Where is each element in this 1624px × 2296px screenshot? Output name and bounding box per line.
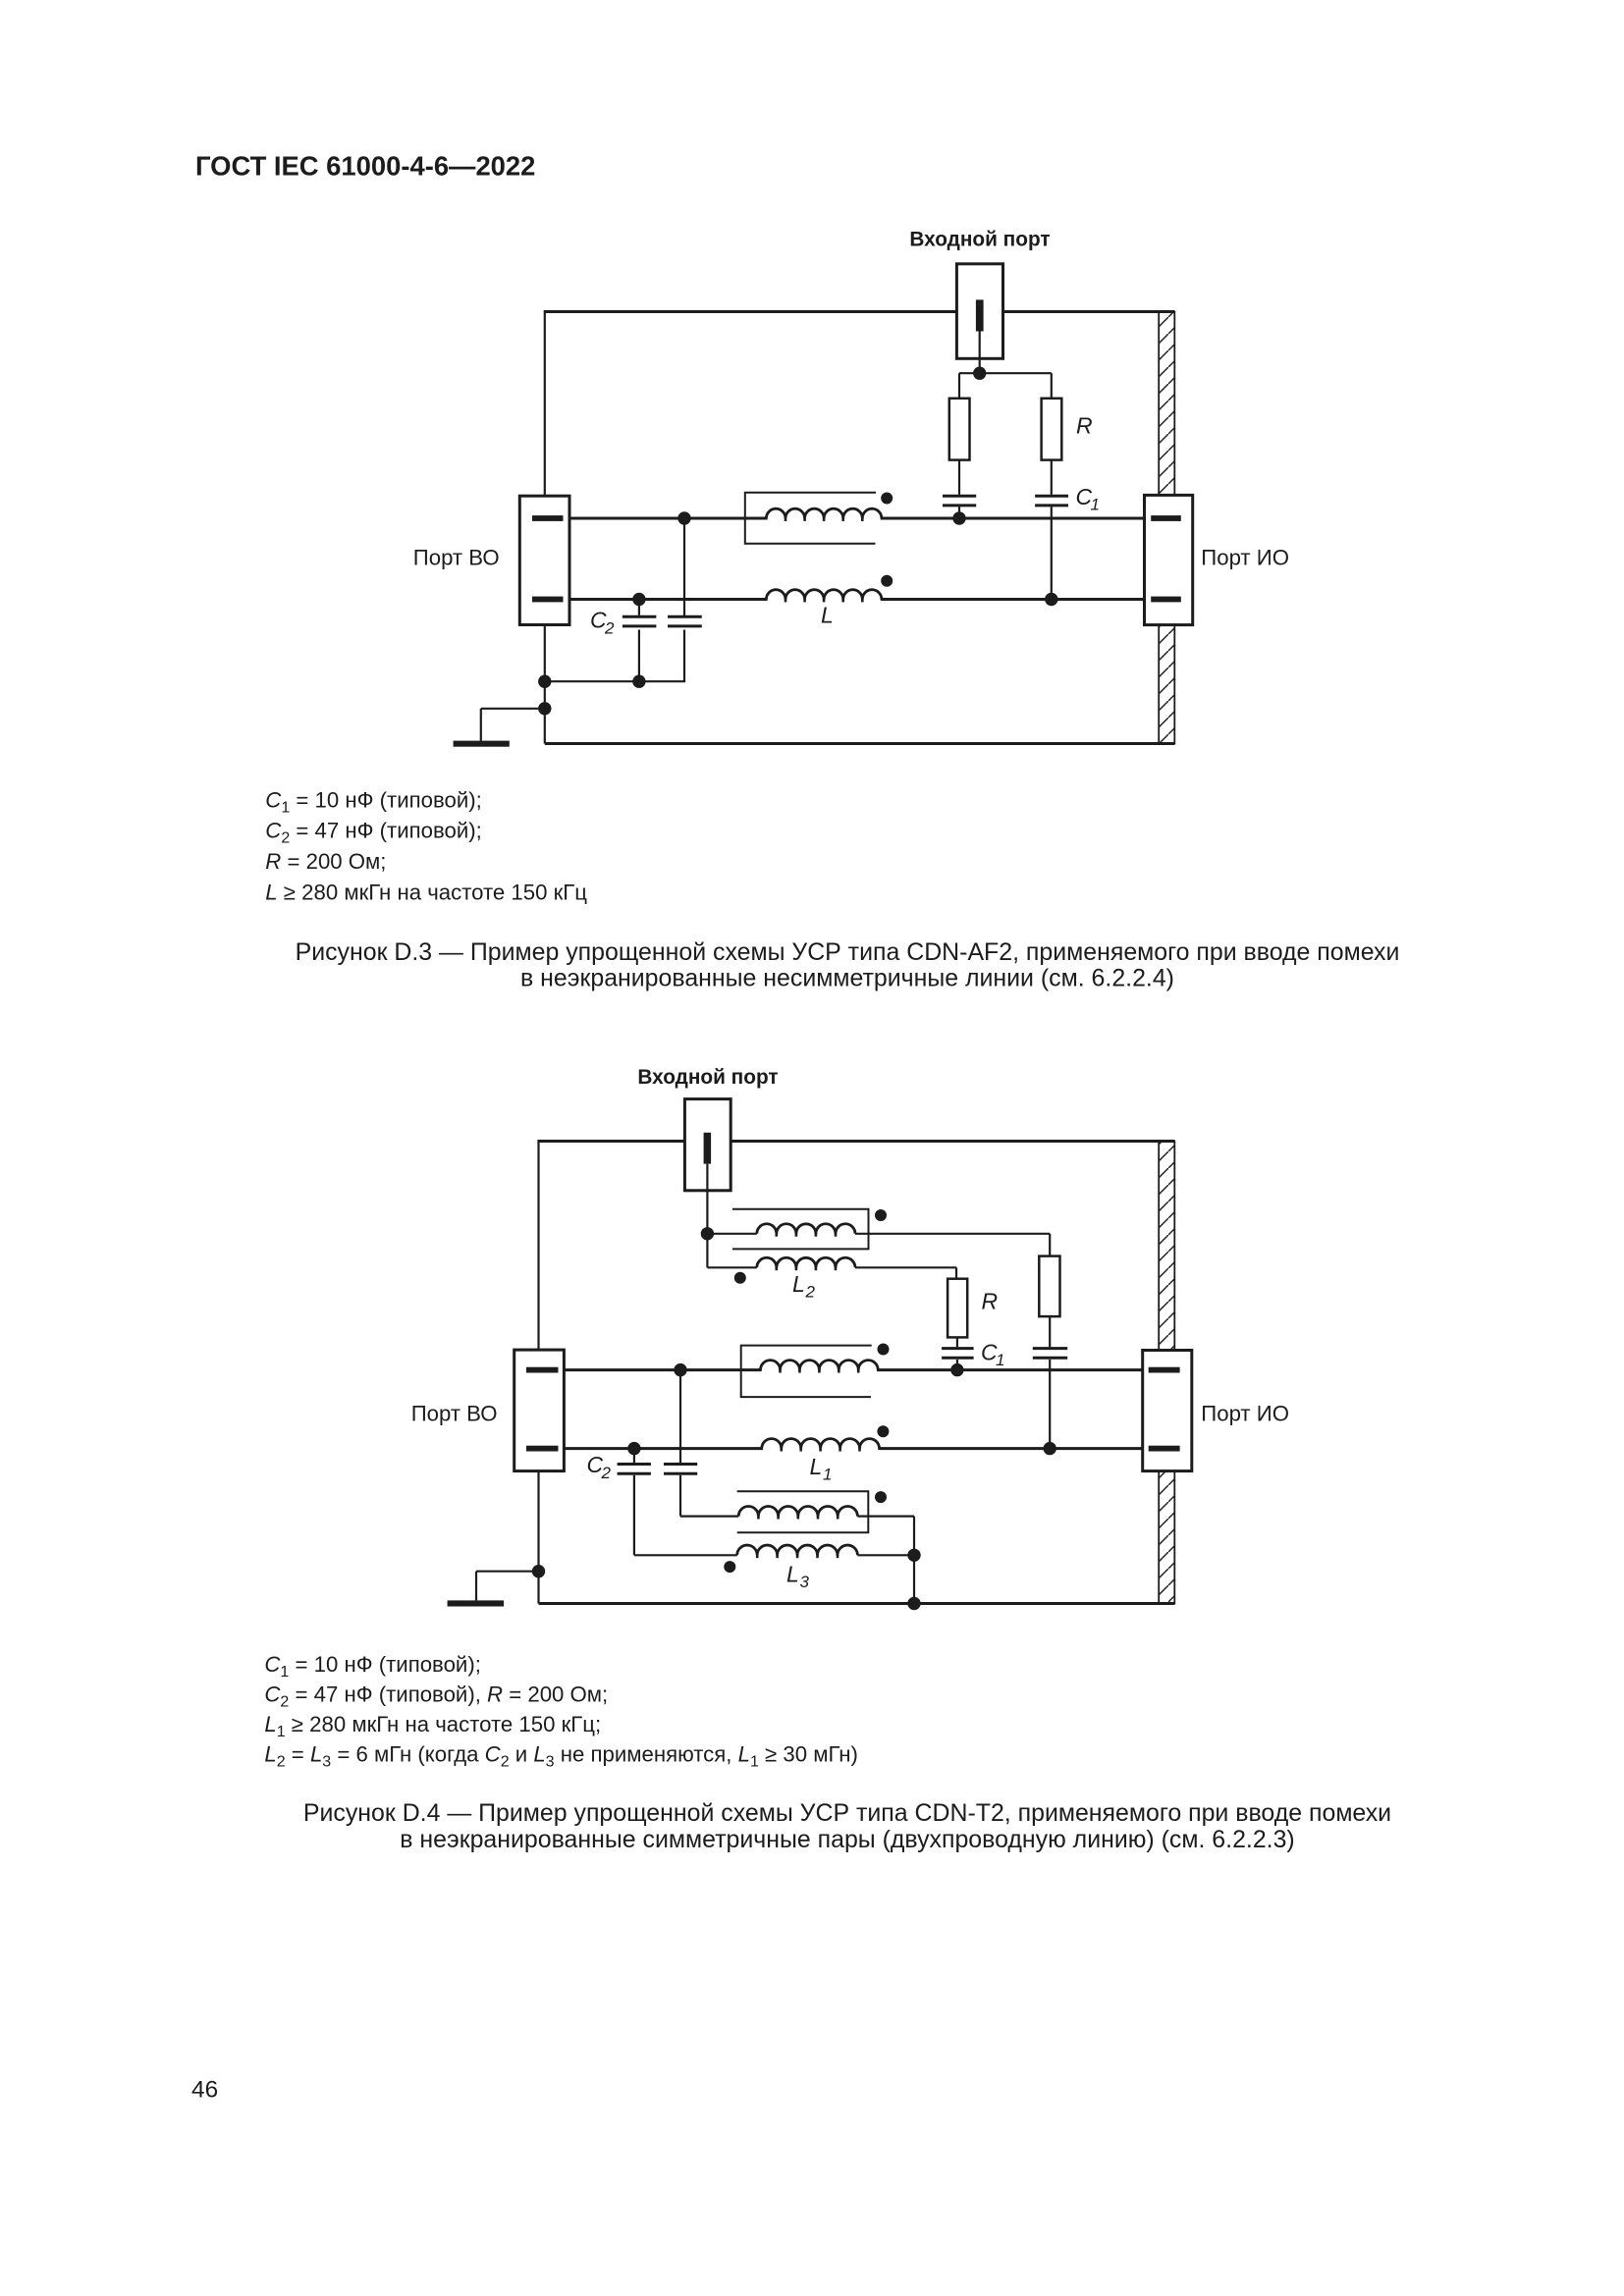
wire bottom horizontal (D.4) bbox=[539, 1602, 1175, 1605]
svg-text:C1 = 10 нФ (типовой);: C1 = 10 нФ (типовой); bbox=[264, 1652, 480, 1681]
node line 1 left (D.4) bbox=[674, 1363, 686, 1376]
inductor L3 bottom winding (D.4) bbox=[737, 1545, 858, 1555]
polarity dot L1 (D.4) bbox=[877, 1425, 889, 1437]
wire L3 bottom winding to right (D.4) bbox=[857, 1554, 914, 1556]
shield wall upper segment (D.3) bbox=[1159, 312, 1174, 496]
node line 1 at C1 (D.4) bbox=[950, 1363, 963, 1376]
shield wall upper segment (D.4) bbox=[1159, 1142, 1174, 1351]
wire L2 bottom winding left vertical (D.4) bbox=[706, 1234, 708, 1268]
svg-text:Порт ВО: Порт ВО bbox=[413, 545, 500, 569]
wire conductor line 2 right part (D.3) bbox=[881, 598, 1145, 601]
resistor left half of R (D.3) bbox=[949, 399, 970, 460]
svg-text:Входной порт: Входной порт bbox=[909, 229, 1050, 251]
svg-text:Порт ИО: Порт ИО bbox=[1201, 1401, 1289, 1425]
wire conductor line 1 left part (D.3) bbox=[569, 517, 768, 520]
wire to right resistor R (D.3) bbox=[1051, 373, 1053, 399]
node line 2 at C2 (D.4) bbox=[627, 1442, 640, 1455]
polarity dot middle transformer (D.4) bbox=[878, 1344, 890, 1356]
wire left vertical lower (D.4) bbox=[537, 1470, 539, 1604]
svg-text:ГОСТ IEC 61000-4-6—2022: ГОСТ IEC 61000-4-6—2022 bbox=[195, 151, 535, 182]
wire conductor line 1 right part (D.3) bbox=[881, 517, 1145, 520]
capacitor left coupling (D.3) bbox=[943, 495, 976, 498]
port box Порт ВО (D.3) bbox=[519, 496, 569, 624]
wire resistor right to capacitor (D.4) bbox=[1049, 1316, 1051, 1347]
transformer winding on line 1 (D.4) bbox=[761, 1361, 879, 1370]
transformer core outline middle (D.4) bbox=[741, 1346, 872, 1398]
wire ground tap horizontal (D.4) bbox=[476, 1571, 539, 1573]
polarity dot inductor L (D.3) bbox=[881, 575, 893, 587]
wire to L2 top winding (D.4) bbox=[707, 1233, 756, 1235]
node junction below input port (D.4) bbox=[701, 1227, 714, 1240]
wire line1 node to C2 right (D.3) bbox=[683, 518, 685, 616]
svg-text:Порт ВО: Порт ВО bbox=[411, 1401, 498, 1425]
shield wall lower segment (D.4) bbox=[1159, 1471, 1174, 1604]
node on line 2 at C2 (D.3) bbox=[632, 593, 645, 606]
polarity dot L3 top (D.4) bbox=[875, 1491, 887, 1503]
port box Порт ИО (D.3) bbox=[1145, 495, 1193, 624]
port box Порт ВО (D.4) bbox=[514, 1350, 565, 1471]
svg-text:2: 2 bbox=[805, 1283, 816, 1302]
polarity dot transformer (D.3) bbox=[881, 493, 893, 505]
inductor L2 top winding (D.4) bbox=[757, 1224, 855, 1234]
wire resistor R to C1 (D.4) bbox=[956, 1337, 958, 1347]
wire conductor line 2 left part (D.3) bbox=[569, 598, 768, 601]
wire L2 bottom winding to right (D.4) bbox=[855, 1266, 956, 1268]
capacitor right coupling (D.4) bbox=[1033, 1347, 1067, 1350]
svg-text:L: L bbox=[810, 1454, 823, 1479]
wire to L2 bottom winding (D.4) bbox=[707, 1266, 756, 1268]
input port box (D.4) bbox=[684, 1099, 731, 1191]
svg-text:C1 = 10 нФ (типовой);: C1 = 10 нФ (типовой); bbox=[265, 787, 481, 816]
node on line 1 at capacitor (D.3) bbox=[952, 511, 965, 524]
svg-text:C2 = 47 нФ (типовой);: C2 = 47 нФ (типовой); bbox=[265, 819, 481, 847]
capacitor C1 (D.3) bbox=[1035, 495, 1068, 498]
svg-text:1: 1 bbox=[996, 1351, 1004, 1369]
wire C2 right up to line 1 (D.4) bbox=[679, 1370, 681, 1464]
wire left vertical upper (D.3) bbox=[544, 310, 546, 498]
wire top horizontal (D.4) bbox=[539, 1140, 1175, 1143]
capacitor C1 (D.4) bbox=[942, 1347, 974, 1350]
wire ground tap horizontal (D.3) bbox=[481, 708, 545, 710]
wire conductor line 2 right part (D.4) bbox=[878, 1447, 1142, 1450]
transformer L3 core outline (D.4) bbox=[737, 1491, 869, 1532]
svg-text:Порт ИО: Порт ИО bbox=[1201, 545, 1289, 569]
wire capacitor right to line 2 (D.4) bbox=[1049, 1360, 1051, 1449]
wire top horizontal (schematic D.3) bbox=[545, 310, 1175, 313]
wire from input port (D.3) bbox=[979, 332, 981, 374]
port box Порт ИО (D.4) bbox=[1143, 1351, 1192, 1471]
transformer winding on line 1 (D.3) bbox=[766, 508, 881, 518]
node ground rail left (D.3) bbox=[538, 675, 551, 688]
shield wall lower segment (D.3) bbox=[1159, 625, 1174, 744]
svg-text:1: 1 bbox=[823, 1466, 832, 1484]
svg-text:R = 200 Ом;: R = 200 Ом; bbox=[265, 849, 386, 874]
svg-text:Рисунок D.4 — Пример упрощенно: Рисунок D.4 — Пример упрощенной схемы УС… bbox=[303, 1799, 1391, 1827]
capacitor C2 right (D.3) bbox=[668, 615, 702, 618]
wire L3 right vertical (D.4) bbox=[913, 1517, 915, 1604]
transformer core outline (D.3) bbox=[745, 493, 876, 544]
svg-text:L: L bbox=[821, 602, 834, 627]
capacitor C2 left (D.4) bbox=[618, 1463, 651, 1466]
wire C2 left top stub (D.4) bbox=[633, 1449, 635, 1464]
inductor L winding on line 2 (D.3) bbox=[766, 590, 881, 600]
wire to left resistor (D.3) bbox=[958, 373, 960, 399]
wire resistor R to capacitor C1 (D.3) bbox=[1051, 460, 1053, 495]
ground bar (D.3) bbox=[454, 741, 510, 747]
polarity dot L2 top (D.4) bbox=[875, 1209, 887, 1221]
resistor R (D.4) bbox=[947, 1279, 967, 1338]
wire left resistor to capacitor (D.3) bbox=[958, 460, 960, 495]
svg-text:R: R bbox=[1076, 413, 1093, 439]
node ground tap (D.3) bbox=[538, 702, 551, 715]
inductor L2 bottom winding (D.4) bbox=[757, 1257, 855, 1267]
svg-text:3: 3 bbox=[800, 1573, 810, 1591]
node ground rail at C2 (D.3) bbox=[632, 675, 645, 688]
wire C1 to line 1 (D.4) bbox=[956, 1360, 958, 1370]
wire C2 left down (D.4) bbox=[633, 1475, 635, 1555]
svg-text:Входной порт: Входной порт bbox=[637, 1066, 778, 1089]
resistor R (D.3) bbox=[1042, 399, 1062, 460]
ground bar (D.4) bbox=[448, 1600, 504, 1606]
inductor L3 top winding (D.4) bbox=[738, 1506, 857, 1516]
node line 2 right (D.4) bbox=[1044, 1442, 1056, 1455]
wire L3 top winding to right (D.4) bbox=[857, 1515, 914, 1517]
svg-text:2: 2 bbox=[601, 1464, 612, 1482]
wire down to resistor R (D.4) bbox=[955, 1267, 957, 1278]
svg-text:2: 2 bbox=[604, 618, 615, 637]
wire conductor line 1 right part (D.4) bbox=[877, 1368, 1143, 1371]
svg-text:R: R bbox=[982, 1289, 999, 1314]
svg-text:46: 46 bbox=[191, 2076, 218, 2103]
polarity dot L3 bottom (D.4) bbox=[724, 1561, 735, 1573]
node on line 2 at C1 (D.3) bbox=[1045, 593, 1057, 606]
svg-text:L: L bbox=[786, 1561, 799, 1586]
wire resistor feed horizontal (D.3) bbox=[959, 372, 1052, 374]
inductor L1 winding on line 2 (D.4) bbox=[762, 1439, 880, 1449]
wire bottom horizontal (D.3) bbox=[545, 742, 1175, 745]
svg-text:L1 ≥ 280 мкГн на частоте 150 к: L1 ≥ 280 мкГн на частоте 150 кГц; bbox=[264, 1712, 601, 1740]
wire from input port (D.4) bbox=[706, 1164, 708, 1234]
wire left vertical upper (D.4) bbox=[537, 1140, 539, 1352]
wire capacitor to line 1 (D.3) bbox=[958, 507, 960, 518]
transformer L2 core outline (D.4) bbox=[732, 1209, 869, 1250]
wire C2 right to ground rail (D.3) bbox=[683, 630, 685, 682]
input port pin bar (D.4) bbox=[704, 1133, 712, 1164]
wire ground rail horizontal (D.3) bbox=[545, 680, 685, 682]
node L3 windings join (D.4) bbox=[907, 1549, 920, 1562]
wire C2 left to L3 bottom winding (D.4) bbox=[634, 1554, 737, 1556]
node on line 1 left (D.3) bbox=[677, 511, 690, 524]
capacitor C2 right (D.4) bbox=[664, 1463, 697, 1466]
resistor right half of R (D.4) bbox=[1039, 1256, 1059, 1317]
node ground tap (D.4) bbox=[532, 1565, 545, 1577]
svg-text:L2 = L3 = 6 мГн (когда C2 и L3: L2 = L3 = 6 мГн (когда C2 и L3 не примен… bbox=[264, 1742, 858, 1771]
capacitor C2 left (D.3) bbox=[623, 615, 657, 618]
wire ground tap vertical (D.3) bbox=[480, 709, 482, 741]
polarity dot L2 bottom (D.4) bbox=[734, 1272, 746, 1284]
wire L2 top winding to right (D.4) bbox=[855, 1233, 1050, 1235]
node L3 to bottom wire (D.4) bbox=[907, 1597, 920, 1610]
svg-text:Рисунок D.3 — Пример упрощенно: Рисунок D.3 — Пример упрощенной схемы УС… bbox=[296, 938, 1400, 966]
svg-text:L ≥ 280 мкГн на частоте 150 кГ: L ≥ 280 мкГн на частоте 150 кГц bbox=[265, 881, 587, 905]
svg-text:1: 1 bbox=[1091, 496, 1100, 514]
svg-text:L: L bbox=[792, 1271, 805, 1297]
wire C2 left top stub (D.3) bbox=[638, 600, 640, 615]
input port pin bar (D.3) bbox=[976, 299, 984, 331]
node junction below input port (D.3) bbox=[973, 367, 986, 380]
wire C2 left to ground rail (D.3) bbox=[638, 630, 640, 682]
wire C1 to line 2 (D.3) bbox=[1051, 507, 1053, 599]
wire ground tap vertical (D.4) bbox=[475, 1572, 477, 1601]
svg-text:в неэкранированные несимметрич: в неэкранированные несимметричные линии … bbox=[520, 965, 1174, 992]
input port box (D.3) bbox=[956, 264, 1002, 359]
wire conductor line 2 left part (D.4) bbox=[564, 1447, 763, 1450]
wire C2 right to L3 top winding (D.4) bbox=[680, 1515, 738, 1517]
svg-text:в неэкранированные симметричны: в неэкранированные симметричные пары (дв… bbox=[400, 1826, 1294, 1853]
wire conductor line 1 left part (D.4) bbox=[564, 1368, 761, 1371]
wire left vertical lower (D.3) bbox=[544, 624, 546, 744]
svg-text:C2 = 47 нФ (типовой), R = 200: C2 = 47 нФ (типовой), R = 200 Ом; bbox=[264, 1682, 608, 1711]
wire down to resistor right (D.4) bbox=[1049, 1234, 1051, 1256]
wire C2 right down (D.4) bbox=[679, 1475, 681, 1517]
